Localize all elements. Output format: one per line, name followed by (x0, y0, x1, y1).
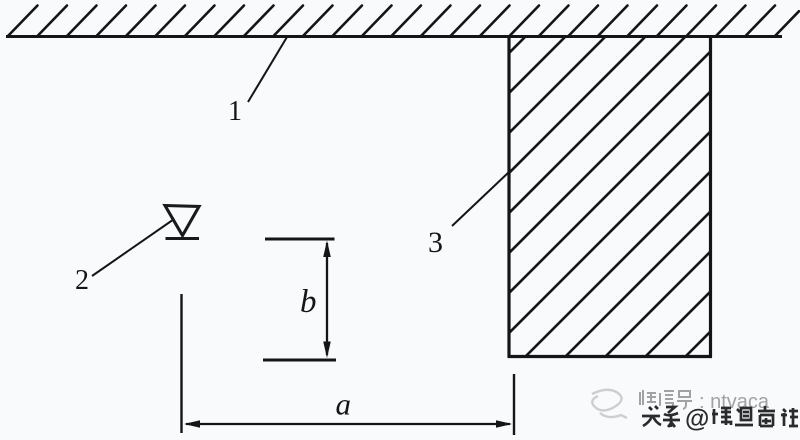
svg-text:2: 2 (75, 265, 89, 296)
leader line 1 (248, 37, 287, 102)
leader line 3 (452, 172, 509, 226)
dimension b top arrowhead (323, 241, 331, 258)
nozzle symbol (2) (165, 206, 199, 239)
dimension a right extension line (513, 374, 515, 435)
svg-text:@: @ (685, 405, 709, 433)
watermark line 2 (toutiao handle) (642, 405, 798, 433)
beam hatching (192, 10, 800, 370)
dimension b bottom reference line (263, 359, 336, 362)
dimension b top reference line (265, 238, 335, 241)
ceiling hatching (8, 6, 800, 37)
svg-text:1: 1 (228, 96, 242, 127)
dimension a left arrowhead (184, 420, 200, 428)
ceiling line (6, 35, 782, 38)
dimension b line (326, 243, 328, 355)
svg-text:a: a (336, 387, 352, 422)
watermark logo swirl (592, 390, 627, 418)
leader line 2 (92, 221, 172, 277)
dimension a right arrowhead (496, 420, 512, 428)
beam outline (3) (508, 37, 713, 357)
dimension a line (186, 423, 510, 425)
svg-text:b: b (300, 284, 317, 320)
svg-text:3: 3 (428, 226, 443, 259)
dimension a left extension line (180, 294, 182, 433)
dimension b bottom arrowhead (323, 342, 331, 359)
watermark line 1 (wechat id) (640, 390, 770, 413)
